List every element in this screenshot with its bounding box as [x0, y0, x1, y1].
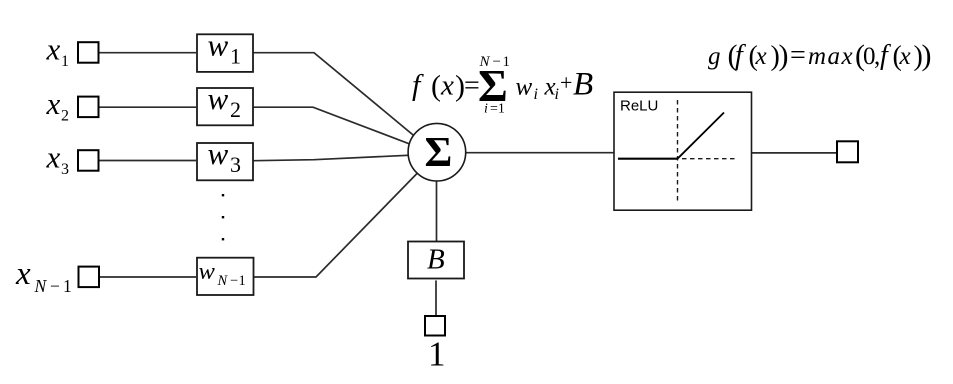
svg-text:x: x [899, 43, 911, 70]
bias input square [425, 316, 445, 336]
svg-text:x: x [46, 139, 61, 174]
weight box w1 [197, 28, 253, 72]
weight box wN-1 [197, 258, 254, 295]
sum node (sigma circle) [408, 123, 466, 181]
input square x1 [78, 42, 99, 63]
wire x2 square to w2 box [99, 106, 197, 108]
wire B box to bias square [435, 280, 437, 316]
svg-text:B: B [573, 67, 593, 103]
svg-text:x: x [15, 256, 31, 292]
svg-text:N: N [34, 276, 48, 296]
svg-text:3: 3 [61, 161, 69, 178]
svg-text:1: 1 [503, 54, 511, 70]
svg-text:N: N [479, 54, 491, 70]
svg-text:(: ( [431, 70, 441, 103]
wire wN-1 box to sum node [254, 154, 436, 277]
svg-text:1: 1 [230, 43, 241, 68]
ReLU curve flat part [618, 158, 678, 160]
wire xN-1 square to wN-1 box [99, 276, 196, 278]
formula f(x) = sum over i of wi xi + B [412, 54, 593, 117]
svg-text:i: i [484, 102, 488, 117]
svg-text:g: g [708, 43, 721, 70]
label xN-1 [15, 256, 72, 296]
weight box w2 [197, 81, 253, 125]
ReLU y-axis (dashed vertical) [677, 100, 679, 202]
svg-text:1: 1 [428, 335, 446, 374]
wire sum node to B box [436, 154, 438, 242]
svg-text:x: x [46, 32, 61, 67]
svg-text:x: x [46, 86, 61, 121]
label x1 [46, 32, 70, 71]
svg-text:2: 2 [230, 97, 241, 122]
ReLU activation box [614, 92, 752, 210]
svg-text:w: w [208, 81, 229, 116]
wire ReLU box to output square [752, 152, 838, 154]
svg-text:): ) [922, 39, 932, 72]
wire w1 box to sum node [253, 53, 436, 154]
svg-text:w: w [199, 258, 216, 285]
svg-text:x: x [440, 70, 454, 102]
input square x2 [78, 97, 99, 118]
svg-text:1: 1 [239, 273, 246, 289]
svg-text:2: 2 [61, 108, 69, 125]
svg-text:=: = [790, 40, 806, 71]
svg-text:w: w [208, 28, 229, 63]
output square [837, 141, 858, 162]
bias box B [408, 242, 464, 279]
svg-text:max: max [808, 43, 854, 70]
wire w3 box to sum node [253, 154, 436, 161]
svg-text:i: i [555, 86, 559, 103]
input square x3 [78, 150, 99, 171]
wire x1 square to w1 box [99, 52, 197, 54]
svg-text:3: 3 [230, 152, 241, 177]
wire sum node to ReLU box [436, 152, 614, 154]
svg-text:−: − [50, 276, 60, 296]
svg-text:w: w [208, 136, 229, 171]
ReLU curve rising part [678, 113, 725, 159]
svg-text:1: 1 [61, 53, 69, 70]
svg-text:): ) [779, 39, 789, 72]
svg-text:w: w [516, 74, 533, 101]
svg-text:N: N [217, 273, 229, 289]
label x2 [46, 86, 70, 125]
svg-text:ReLU: ReLU [620, 98, 658, 115]
svg-text:−: − [493, 54, 501, 70]
svg-text:i: i [534, 86, 538, 103]
svg-text:B: B [427, 244, 445, 276]
svg-text:x: x [755, 43, 767, 70]
ellipsis dots between w3 and wN-1 [222, 194, 224, 240]
wire x3 square to w3 box [99, 160, 197, 162]
ReLU x-axis (dashed horizontal) [618, 158, 737, 160]
svg-text:=1: =1 [490, 102, 505, 117]
svg-text:Σ: Σ [425, 129, 453, 176]
label x3 [46, 139, 70, 178]
bias constant label 1 [428, 335, 446, 374]
formula g(f(x)) = max(0, f(x)) [708, 39, 932, 72]
svg-text:+: + [560, 70, 572, 95]
wire w2 box to sum node [253, 107, 436, 154]
svg-text:1: 1 [63, 276, 72, 296]
svg-text:−: − [230, 273, 238, 289]
weight box w3 [197, 136, 253, 180]
input square xN-1 [79, 267, 100, 288]
